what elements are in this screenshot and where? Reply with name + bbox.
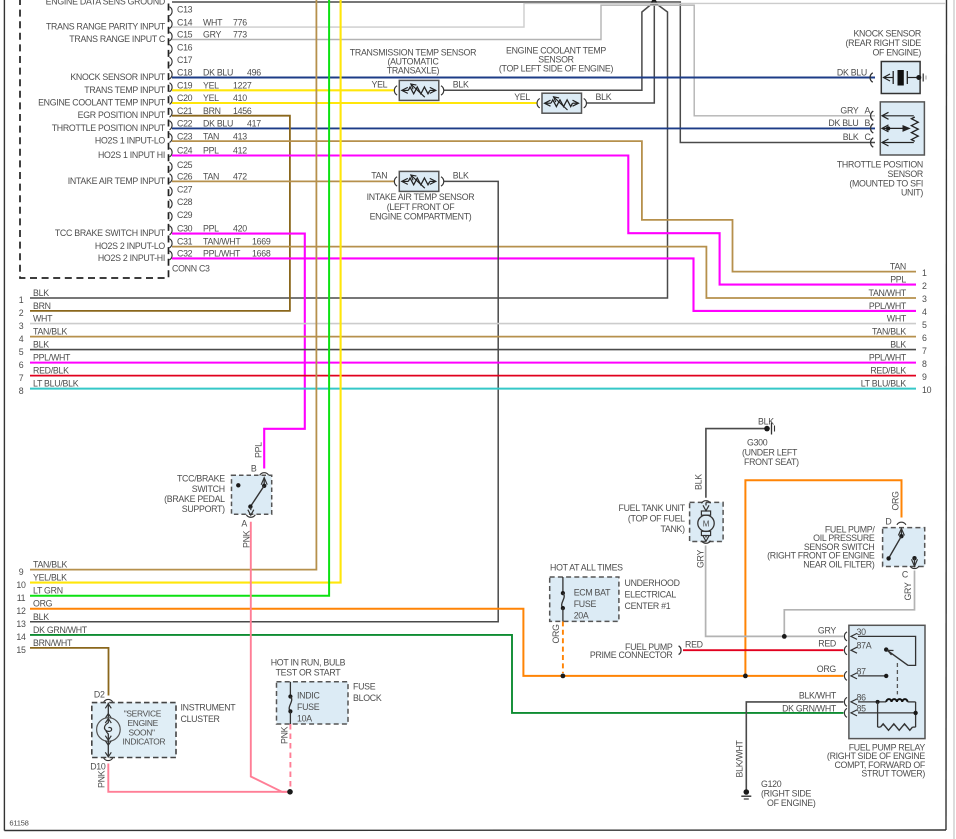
ECM pin C30 (170, 226, 173, 235)
ECM pin C13 (170, 7, 173, 16)
svg-text:CONN C3: CONN C3 (172, 264, 210, 274)
svg-text:87A: 87A (857, 641, 872, 651)
svg-text:GRY: GRY (903, 582, 913, 600)
wire YEL 410 (172, 102, 537, 104)
svg-text:8: 8 (922, 359, 927, 369)
svg-text:86: 86 (857, 692, 867, 702)
fuel tank unit (fuel pump motor M) (690, 502, 724, 541)
ECM pin C29 (170, 212, 173, 221)
svg-text:CLUSTER: CLUSTER (181, 714, 220, 724)
wire ORG fusible drop (dashed) (562, 621, 564, 673)
svg-text:ORG: ORG (551, 624, 561, 644)
wire BLK from intake air temp sensor to row 13 (30, 181, 498, 621)
svg-text:496: 496 (247, 68, 261, 78)
relay 85 wire / junction (858, 712, 916, 714)
svg-text:A: A (865, 106, 871, 116)
wire BLK fuel tank to G300 (706, 429, 767, 498)
wire TAN/WHT 1669 to right row 3 (172, 247, 916, 298)
svg-text:BLOCK: BLOCK (353, 693, 382, 703)
svg-text:ELECTRICAL: ELECTRICAL (625, 590, 677, 600)
svg-text:GRY: GRY (818, 626, 836, 636)
wire BLK row (30, 349, 916, 351)
wire GRY 773 to TPS pin A (172, 5, 875, 116)
svg-text:2: 2 (19, 308, 24, 318)
svg-text:TAN/WHT: TAN/WHT (869, 288, 907, 298)
svg-text:ORG: ORG (33, 599, 53, 609)
svg-text:ECM BAT: ECM BAT (574, 588, 611, 598)
wire YEL/BLK vertical to row 10 (30, 0, 341, 583)
ECM pin C28 (170, 199, 173, 208)
svg-text:HO2S 2 INPUT-LO: HO2S 2 INPUT-LO (95, 241, 166, 251)
svg-text:ENGINE DATA SENS GROUND: ENGINE DATA SENS GROUND (46, 0, 165, 7)
svg-text:TCC/BRAKE: TCC/BRAKE (177, 474, 225, 484)
svg-text:BRN/WHT: BRN/WHT (33, 638, 73, 648)
ECM pin C17 (170, 57, 173, 66)
svg-text:PNK: PNK (242, 530, 252, 548)
svg-text:(BRAKE PEDAL: (BRAKE PEDAL (164, 494, 225, 504)
ECM pin C15 (170, 32, 173, 41)
svg-text:C27: C27 (177, 185, 193, 195)
svg-text:C13: C13 (177, 5, 193, 15)
svg-text:M: M (703, 520, 710, 529)
wire DK BLU 496 to knock sensor (172, 77, 875, 79)
relay internal switch (858, 636, 916, 665)
relay pin 87A (844, 646, 847, 655)
ECM connector C3 (dashed box) (20, 0, 169, 278)
svg-text:KNOCK SENSOR: KNOCK SENSOR (853, 29, 921, 39)
wire DK BLU 417 to TPS pin B (172, 127, 875, 129)
svg-text:1227: 1227 (233, 81, 252, 91)
svg-text:C19: C19 (177, 81, 193, 91)
svg-text:TAN: TAN (890, 262, 906, 272)
svg-text:1: 1 (19, 295, 24, 305)
svg-text:BLK: BLK (453, 170, 469, 180)
TPS pin B (871, 124, 874, 133)
svg-text:WHT: WHT (887, 314, 907, 324)
wire BLK engine data sens ground (172, 2, 875, 143)
svg-text:10: 10 (922, 385, 932, 395)
wire PPL/WHT 1668 to right row 4 (172, 258, 916, 311)
relay pin 87 (844, 671, 847, 680)
svg-text:ENGINE COMPARTMENT): ENGINE COMPARTMENT) (370, 212, 472, 222)
wire RED fuel pump prime connector to relay 87A (683, 649, 844, 651)
svg-text:TAN/BLK: TAN/BLK (33, 327, 67, 337)
svg-text:BLK: BLK (694, 474, 704, 490)
svg-text:C15: C15 (177, 30, 193, 40)
svg-text:PPL: PPL (203, 146, 219, 156)
svg-text:RED: RED (685, 640, 703, 650)
svg-text:SWITCH: SWITCH (192, 484, 225, 494)
svg-text:G120: G120 (761, 779, 782, 789)
svg-text:INTAKE AIR TEMP INPUT: INTAKE AIR TEMP INPUT (68, 176, 166, 186)
ECM pin C32 (170, 251, 173, 260)
svg-text:TRANS RANGE INPUT C: TRANS RANGE INPUT C (69, 34, 166, 44)
svg-text:413: 413 (233, 131, 247, 141)
service engine soon indicator lamp (107, 703, 109, 723)
svg-text:LT GRN: LT GRN (33, 586, 63, 596)
svg-text:FUSE: FUSE (574, 599, 597, 609)
wire TAN/BLK vertical to row 9 (30, 0, 316, 570)
svg-text:776: 776 (233, 17, 247, 27)
engine coolant temp sensor (thermistor) (537, 99, 540, 108)
wire BLK from engine coolant temp sensor (586, 2, 654, 103)
svg-text:12: 12 (16, 606, 26, 616)
svg-text:PNK: PNK (97, 770, 107, 788)
relay coil (858, 701, 886, 703)
svg-text:HO2S 1 INPUT HI: HO2S 1 INPUT HI (98, 150, 165, 160)
svg-text:GRY: GRY (840, 106, 858, 116)
svg-text:KNOCK SENSOR INPUT: KNOCK SENSOR INPUT (70, 72, 166, 82)
svg-text:BLK: BLK (890, 340, 906, 350)
svg-text:GRY: GRY (696, 550, 706, 568)
svg-text:HOT IN RUN, BULB: HOT IN RUN, BULB (271, 658, 346, 668)
svg-text:UNDERHOOD: UNDERHOOD (625, 578, 680, 588)
relay armature (dashed) (896, 663, 898, 694)
relay internal resistor (877, 702, 879, 727)
svg-text:OF ENGINE): OF ENGINE) (767, 798, 816, 808)
svg-text:ENGINE COOLANT TEMP INPUT: ENGINE COOLANT TEMP INPUT (38, 98, 166, 108)
svg-text:(REAR RIGHT SIDE: (REAR RIGHT SIDE (845, 38, 921, 48)
wire RED/BLK row (30, 375, 916, 377)
svg-text:HO2S 2 INPUT-HI: HO2S 2 INPUT-HI (98, 253, 165, 263)
svg-text:B: B (865, 118, 871, 128)
ECM pin C23 (170, 134, 173, 143)
svg-text:TAN: TAN (203, 131, 219, 141)
ECM pin C26 (170, 174, 173, 183)
svg-text:GRY: GRY (203, 30, 221, 40)
svg-text:RED/BLK: RED/BLK (870, 366, 906, 376)
svg-text:472: 472 (233, 172, 247, 182)
fuel pump / oil pressure sensor switch (883, 528, 925, 567)
svg-text:DK BLU: DK BLU (203, 68, 233, 78)
svg-text:TAN: TAN (203, 172, 219, 182)
svg-text:C22: C22 (177, 119, 193, 129)
svg-text:TAN/WHT: TAN/WHT (203, 237, 241, 247)
connector: fuel pump prime (679, 646, 681, 655)
svg-text:PPL/WHT: PPL/WHT (869, 301, 907, 311)
svg-text:INDICATOR: INDICATOR (123, 737, 166, 747)
wire BLK/WHT relay 86 to G120 (746, 702, 843, 790)
svg-text:(RIGHT SIDE: (RIGHT SIDE (761, 789, 811, 799)
svg-text:61158: 61158 (9, 819, 28, 828)
svg-text:DK BLU: DK BLU (203, 119, 233, 129)
svg-text:420: 420 (233, 224, 247, 234)
svg-text:BLK: BLK (33, 612, 49, 622)
svg-text:WHT: WHT (33, 314, 53, 324)
svg-text:C25: C25 (177, 160, 193, 170)
svg-text:6: 6 (922, 333, 927, 343)
ECM pin C19 (170, 83, 173, 92)
svg-text:5: 5 (19, 347, 24, 357)
svg-text:87: 87 (857, 666, 867, 676)
svg-text:8: 8 (19, 386, 24, 396)
svg-text:ORG: ORG (891, 491, 901, 511)
TPS pin C (871, 138, 874, 147)
ECM pin C27 (170, 187, 173, 196)
svg-text:YEL: YEL (203, 93, 219, 103)
svg-text:10A: 10A (297, 714, 312, 724)
svg-text:PPL: PPL (890, 275, 906, 285)
svg-text:C14: C14 (177, 17, 193, 27)
svg-text:1668: 1668 (252, 249, 271, 259)
svg-text:FUSE: FUSE (297, 702, 320, 712)
relay pin 30 (844, 632, 847, 641)
svg-text:TRANSAXLE): TRANSAXLE) (387, 66, 440, 76)
ECM pin C20 (170, 95, 173, 104)
svg-text:HO2S 1 INPUT-LO: HO2S 1 INPUT-LO (95, 136, 166, 146)
svg-text:BRN: BRN (203, 106, 221, 116)
svg-text:7: 7 (19, 373, 24, 383)
svg-text:TAN: TAN (371, 170, 387, 180)
svg-text:BLK: BLK (33, 340, 49, 350)
svg-text:C29: C29 (177, 210, 193, 220)
svg-text:3: 3 (19, 321, 24, 331)
svg-text:INDIC: INDIC (297, 691, 320, 701)
svg-text:7: 7 (922, 346, 927, 356)
svg-text:C21: C21 (177, 106, 193, 116)
ECM pin C18 (170, 70, 173, 79)
wire BRN/WHT row 15 to instrument cluster D2 (30, 648, 109, 696)
svg-text:FUEL TANK UNIT: FUEL TANK UNIT (618, 503, 685, 513)
svg-text:UNIT): UNIT) (901, 188, 923, 198)
svg-text:BRN: BRN (33, 301, 51, 311)
node PNK junction (287, 789, 293, 795)
svg-text:BLK/WHT: BLK/WHT (735, 739, 745, 777)
svg-text:1: 1 (922, 268, 927, 278)
svg-text:EGR POSITION INPUT: EGR POSITION INPUT (78, 110, 166, 120)
ECM pin C22 (170, 121, 173, 130)
TPS pin A (871, 111, 874, 120)
svg-text:STRUT TOWER): STRUT TOWER) (861, 769, 925, 779)
svg-text:(TOP LEFT SIDE OF ENGINE): (TOP LEFT SIDE OF ENGINE) (499, 64, 614, 74)
svg-text:TRANS TEMP INPUT: TRANS TEMP INPUT (84, 85, 166, 95)
ECM pin C14 (170, 20, 173, 29)
TPS potentiometer (882, 115, 914, 117)
svg-text:BLK: BLK (33, 288, 49, 298)
svg-text:2: 2 (922, 281, 927, 291)
ground G300 (764, 426, 770, 432)
svg-text:TAN/BLK: TAN/BLK (872, 327, 906, 337)
svg-text:RED: RED (818, 638, 836, 648)
svg-text:30: 30 (857, 627, 867, 637)
wire BLK row 1 left (30, 2, 668, 298)
wire GRY fuel tank to relay 30 (706, 546, 844, 637)
intake air temp sensor (thermistor) (394, 177, 397, 186)
svg-text:C: C (902, 569, 909, 579)
svg-text:CENTER #1: CENTER #1 (625, 601, 671, 611)
svg-text:6: 6 (19, 360, 24, 370)
svg-text:HOT AT ALL TIMES: HOT AT ALL TIMES (550, 563, 623, 573)
svg-text:13: 13 (16, 619, 26, 629)
svg-text:PPL/WHT: PPL/WHT (869, 353, 907, 363)
wire GRY from oil pressure switch C (784, 571, 914, 637)
wire LT BLU/BLK row (30, 388, 916, 390)
svg-text:BLK: BLK (758, 417, 774, 427)
svg-text:PRIME CONNECTOR: PRIME CONNECTOR (590, 650, 673, 660)
ECM pin C31 (170, 239, 173, 248)
svg-text:DK BLU: DK BLU (837, 68, 867, 78)
svg-text:C24: C24 (177, 146, 193, 156)
wire ORG riser to oil pressure switch D (745, 480, 901, 676)
wire LT GRN vertical to row 11 (30, 0, 329, 596)
wire YEL 1227 (172, 89, 394, 91)
svg-text:FRONT SEAT): FRONT SEAT) (744, 457, 799, 467)
svg-text:DK BLU: DK BLU (828, 118, 858, 128)
svg-text:INTAKE AIR TEMP SENSOR: INTAKE AIR TEMP SENSOR (367, 192, 475, 202)
svg-text:9: 9 (922, 372, 927, 382)
svg-text:DK GRN/WHT: DK GRN/WHT (33, 625, 88, 635)
svg-text:417: 417 (247, 119, 261, 129)
svg-text:YEL: YEL (203, 81, 219, 91)
svg-text:THROTTLE POSITION: THROTTLE POSITION (837, 160, 923, 170)
node ORG junction at fuse drop (561, 674, 566, 679)
wire WHT 776 (172, 3, 946, 27)
wire WHT row (30, 323, 916, 325)
svg-text:1456: 1456 (233, 106, 252, 116)
svg-text:DK GRN/WHT: DK GRN/WHT (782, 703, 837, 713)
svg-text:YEL: YEL (372, 79, 388, 89)
svg-text:TCC BRAKE SWITCH INPUT: TCC BRAKE SWITCH INPUT (55, 228, 166, 238)
relay pin 85 (844, 708, 847, 717)
svg-text:D10: D10 (90, 762, 106, 772)
svg-text:NEAR OIL FILTER): NEAR OIL FILTER) (803, 559, 875, 569)
svg-text:1669: 1669 (252, 237, 271, 247)
node: sensor ground junction (651, 0, 656, 5)
svg-text:PPL/WHT: PPL/WHT (203, 249, 241, 259)
svg-text:D2: D2 (94, 690, 105, 700)
wire PPL 420 to TCC brake switch (172, 234, 305, 469)
svg-text:THROTTLE POSITION INPUT: THROTTLE POSITION INPUT (52, 123, 166, 133)
svg-text:PPL: PPL (203, 224, 219, 234)
svg-text:4: 4 (19, 334, 24, 344)
svg-text:C28: C28 (177, 197, 193, 207)
svg-text:A: A (241, 519, 247, 529)
svg-text:C16: C16 (177, 42, 193, 52)
wire PNK from D10 (108, 764, 290, 792)
node ORG junction at riser (743, 674, 748, 679)
svg-text:BLK: BLK (453, 79, 469, 89)
ECM pin C24 (170, 148, 173, 157)
svg-text:10: 10 (16, 580, 26, 590)
svg-text:BLK: BLK (843, 132, 859, 142)
svg-text:C30: C30 (177, 224, 193, 234)
wire PNK dashed from fuse block (289, 724, 291, 789)
svg-text:YEL/BLK: YEL/BLK (33, 573, 67, 583)
svg-text:C18: C18 (177, 68, 193, 78)
svg-text:773: 773 (233, 30, 247, 40)
svg-text:RED/BLK: RED/BLK (33, 366, 69, 376)
svg-text:C17: C17 (177, 55, 193, 65)
svg-text:TEST OR START: TEST OR START (276, 668, 342, 678)
svg-text:(UNDER LEFT: (UNDER LEFT (742, 447, 798, 457)
svg-text:5: 5 (922, 320, 927, 330)
ECM pin C25 (170, 162, 173, 171)
svg-text:15: 15 (16, 645, 26, 655)
svg-text:D: D (885, 517, 891, 527)
svg-text:YEL: YEL (514, 92, 530, 102)
wire TAN 472 to intake air temp sensor (172, 180, 394, 182)
svg-text:11: 11 (17, 593, 26, 603)
wire PNK from TCC/brake switch A (251, 522, 290, 792)
wire PPL 412 to right row 2 (172, 156, 916, 285)
svg-text:14: 14 (16, 632, 26, 642)
svg-text:G300: G300 (747, 438, 768, 448)
svg-text:(TOP OF FUEL: (TOP OF FUEL (628, 513, 685, 523)
svg-text:LT BLU/BLK: LT BLU/BLK (33, 379, 79, 389)
svg-text:412: 412 (233, 146, 247, 156)
svg-text:PPL: PPL (254, 442, 264, 458)
wire PPL/WHT row (30, 362, 916, 364)
svg-text:INSTRUMENT: INSTRUMENT (181, 703, 237, 713)
svg-text:SUPPORT): SUPPORT) (182, 504, 225, 514)
wire TAN/BLK row (30, 336, 916, 338)
svg-text:3: 3 (922, 294, 927, 304)
svg-text:TANK): TANK) (660, 524, 685, 534)
svg-text:FUSE: FUSE (353, 682, 376, 692)
svg-text:C32: C32 (177, 249, 193, 259)
svg-text:410: 410 (233, 93, 247, 103)
svg-text:BLK: BLK (596, 92, 612, 102)
ECM pin C21 (170, 108, 173, 117)
svg-text:PPL/WHT: PPL/WHT (33, 353, 71, 363)
svg-text:TRANS RANGE PARITY INPUT: TRANS RANGE PARITY INPUT (46, 22, 166, 32)
svg-text:ORG: ORG (817, 664, 837, 674)
svg-text:TAN/BLK: TAN/BLK (33, 560, 67, 570)
node GRY junction (782, 634, 787, 639)
svg-text:4: 4 (922, 307, 927, 317)
ECM pin C16 (170, 45, 173, 54)
svg-text:C: C (865, 132, 872, 142)
svg-text:OF ENGINE): OF ENGINE) (872, 48, 921, 58)
svg-text:85: 85 (857, 703, 867, 713)
svg-text:C31: C31 (177, 237, 193, 247)
wire DK GRN/WHT row 14 to fuel pump relay 85 (30, 635, 844, 713)
wire TAN 413 to right row 1 (172, 141, 916, 272)
transmission temp sensor (thermistor) (394, 86, 397, 95)
svg-text:20A: 20A (574, 611, 589, 621)
svg-text:LT BLU/BLK: LT BLU/BLK (861, 379, 907, 389)
svg-text:WHT: WHT (203, 17, 223, 27)
svg-text:BLK/WHT: BLK/WHT (799, 690, 837, 700)
svg-text:B: B (251, 464, 257, 474)
relay pin 86 (844, 697, 847, 706)
svg-text:C20: C20 (177, 93, 193, 103)
ground G120 (744, 789, 750, 795)
wire BRN 1456 to row 2 (30, 116, 290, 311)
svg-text:(LEFT FRONT OF: (LEFT FRONT OF (387, 202, 456, 212)
svg-text:PNK: PNK (280, 726, 290, 744)
wire BLK from trans temp sensor (444, 2, 654, 90)
svg-text:C23: C23 (177, 131, 193, 141)
wire ORG row 12 to fuel pump relay 87 (30, 609, 844, 676)
throttle position sensor (880, 102, 924, 155)
fuel pump relay box (849, 625, 925, 738)
svg-text:9: 9 (19, 567, 24, 577)
relay 87 contact (858, 675, 886, 677)
svg-text:C26: C26 (177, 172, 193, 182)
